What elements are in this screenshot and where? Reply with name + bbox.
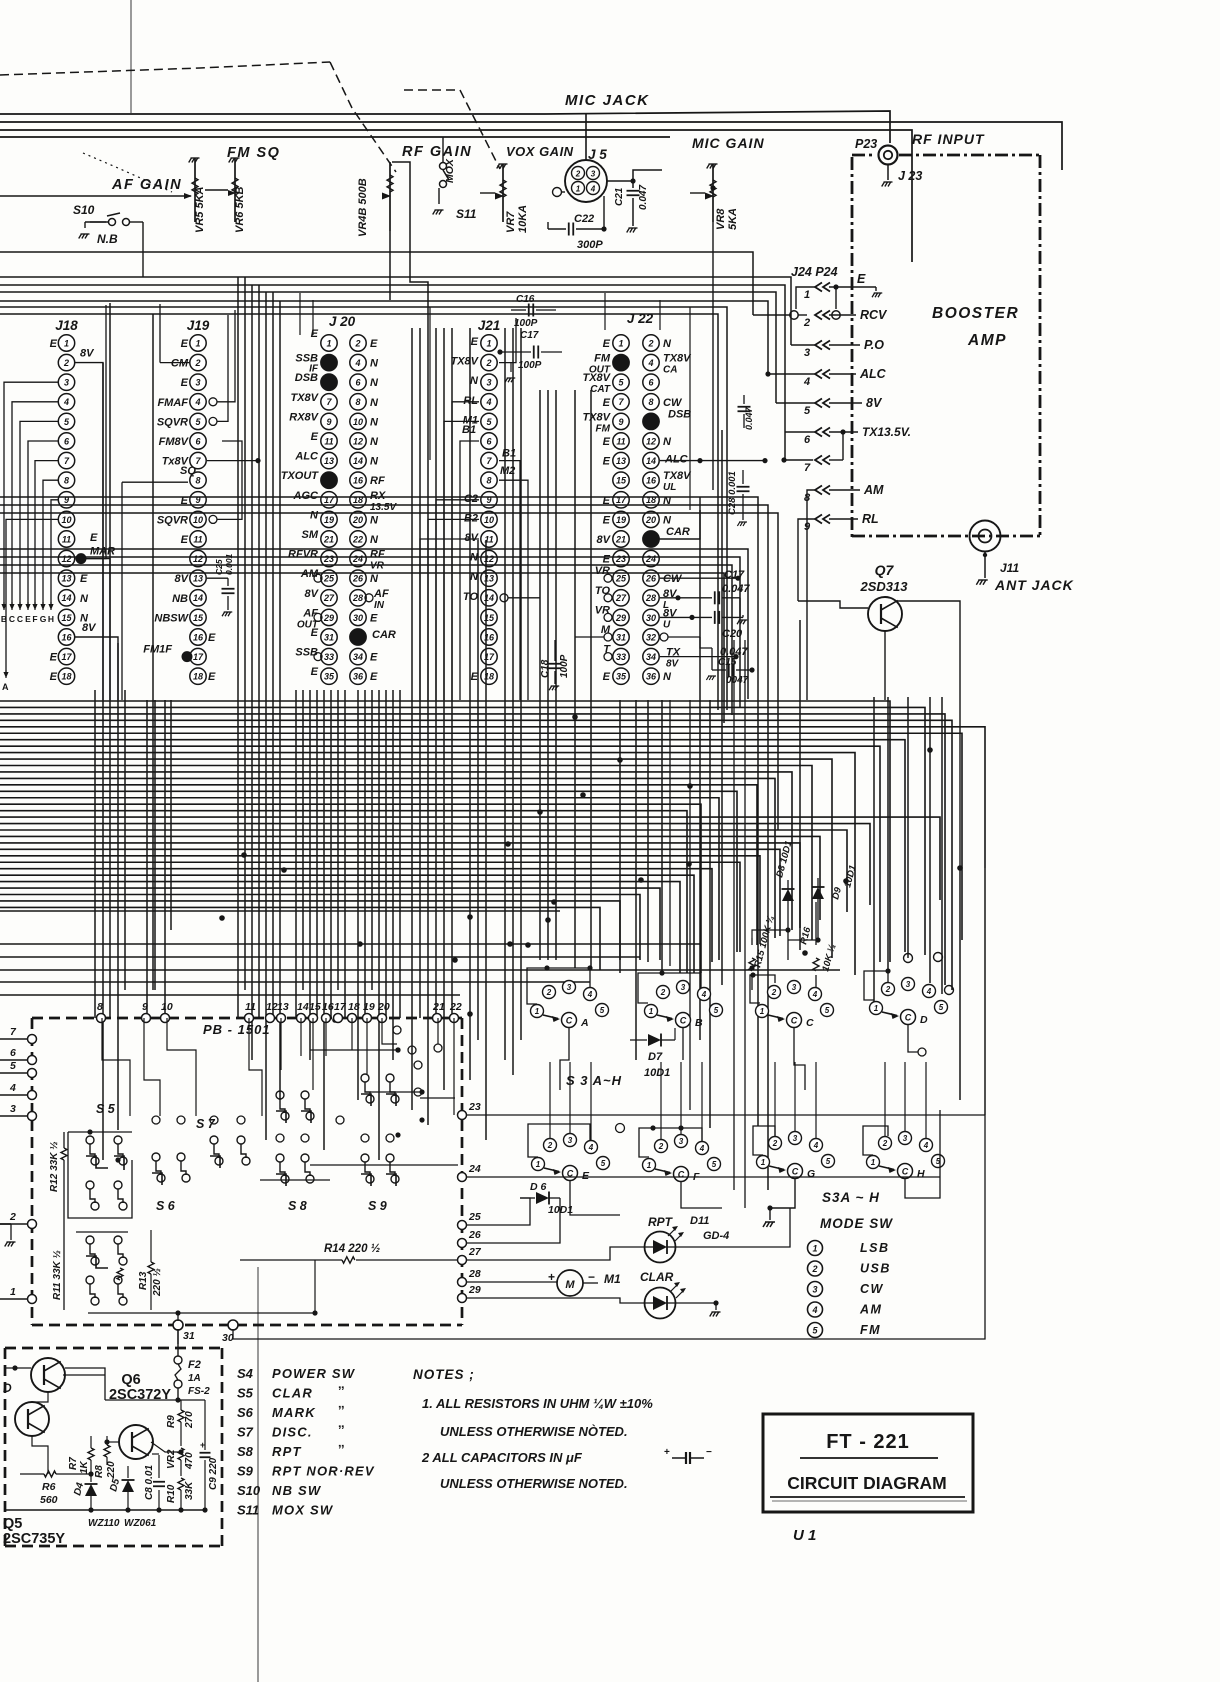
svg-text:AM: AM (863, 483, 884, 497)
svg-text:0.047: 0.047 (744, 406, 754, 430)
svg-text:16: 16 (61, 632, 72, 642)
capacitor C8 0.01 (158, 1455, 160, 1478)
PB-1501 top terminals 8-22 (97, 1014, 106, 1023)
svg-text:RL: RL (862, 512, 879, 526)
wafer C bracket wires (750, 975, 775, 1003)
svg-text:10D1: 10D1 (644, 1067, 670, 1079)
svg-text:D: D (3, 1381, 12, 1395)
svg-text:9: 9 (618, 417, 623, 427)
svg-text:1: 1 (64, 338, 69, 348)
svg-text:21: 21 (432, 1001, 445, 1013)
svg-text:4: 4 (811, 1305, 817, 1315)
svg-text:C: C (791, 1016, 798, 1026)
svg-text:D11: D11 (690, 1215, 709, 1227)
svg-text:3: 3 (591, 170, 596, 179)
svg-text:C18: C18 (540, 659, 551, 678)
svg-text:300P: 300P (577, 239, 603, 251)
svg-text:8: 8 (355, 397, 360, 407)
svg-text:FM1F: FM1F (143, 644, 172, 656)
svg-text:8V: 8V (305, 588, 320, 600)
svg-text:M1: M1 (604, 1272, 621, 1286)
svg-text:S 8: S 8 (288, 1199, 307, 1213)
svg-text:H: H (917, 1168, 925, 1180)
svg-text:29: 29 (323, 613, 334, 623)
pot VR7 10KA (497, 164, 508, 169)
svg-text:E: E (370, 671, 378, 683)
diode D9 10D1 (812, 887, 824, 899)
wire Q6 collector bus (105, 1399, 205, 1401)
svg-text:VR8: VR8 (715, 208, 727, 230)
rotary wafer S3 section E (532, 1158, 545, 1171)
svg-text:4: 4 (485, 397, 491, 407)
svg-text:E: E (603, 397, 611, 409)
svg-text:16: 16 (353, 476, 364, 486)
svg-text:6: 6 (10, 1047, 16, 1059)
resistor R8 220 (106, 1436, 108, 1445)
svg-text:CLAR: CLAR (640, 1270, 674, 1284)
svg-text:1: 1 (871, 1158, 876, 1167)
svg-text:Q7: Q7 (875, 562, 895, 578)
svg-text:32: 32 (646, 632, 656, 642)
svg-text:11: 11 (616, 436, 625, 446)
svg-text:25: 25 (323, 574, 335, 584)
svg-text:N: N (370, 358, 379, 370)
PB-1501 left terminals 1-7 (28, 1035, 37, 1044)
svg-text:14: 14 (297, 1001, 309, 1013)
svg-text:E: E (603, 514, 611, 526)
svg-text:8V: 8V (597, 534, 612, 546)
svg-text:E: E (311, 328, 319, 340)
svg-text:J21: J21 (478, 318, 501, 333)
svg-text:RF INPUT: RF INPUT (912, 131, 985, 147)
svg-text:100P: 100P (559, 654, 570, 678)
svg-text:3: 3 (792, 983, 797, 992)
svg-text:23: 23 (323, 554, 334, 564)
svg-text:6: 6 (804, 434, 811, 446)
svg-text:WZ061: WZ061 (124, 1518, 157, 1529)
svg-text:S 9: S 9 (368, 1199, 387, 1213)
svg-text:S 5: S 5 (96, 1102, 116, 1116)
svg-text:E: E (603, 338, 611, 350)
wafer C/G stem wires (794, 1028, 805, 1090)
svg-text:3: 3 (679, 1137, 684, 1146)
svg-text:2: 2 (485, 358, 491, 368)
svg-text:E: E (370, 338, 378, 350)
wire Q7 collector (897, 601, 960, 868)
svg-text:FS-2: FS-2 (188, 1386, 210, 1397)
svg-text:12: 12 (646, 436, 656, 446)
svg-text:17: 17 (193, 652, 204, 662)
svg-text:23: 23 (468, 1101, 481, 1113)
wafer G bracket wires (753, 1126, 775, 1155)
svg-text:SQVR: SQVR (157, 514, 188, 526)
svg-text:FM SQ: FM SQ (227, 145, 280, 161)
svg-text:VR: VR (370, 561, 385, 572)
svg-text:24: 24 (468, 1163, 481, 1175)
svg-text:DISC.: DISC. (272, 1425, 313, 1440)
svg-text:MODE SW: MODE SW (820, 1216, 893, 1231)
svg-text:28: 28 (468, 1268, 481, 1280)
svg-text:8V: 8V (866, 396, 883, 410)
svg-text:35: 35 (324, 672, 335, 682)
svg-text:34: 34 (646, 652, 656, 662)
svg-text:R8: R8 (94, 1465, 105, 1478)
svg-text:S11: S11 (237, 1503, 259, 1518)
svg-text:U 1: U 1 (793, 1527, 816, 1544)
switch link bars (86, 1156, 108, 1168)
svg-text:R13: R13 (138, 1271, 149, 1290)
dashed linkage line to RF GAIN (0, 62, 330, 75)
svg-text:3: 3 (804, 347, 810, 359)
svg-text:AF GAIN: AF GAIN (111, 177, 182, 193)
svg-text:E: E (50, 338, 58, 350)
svg-text:AMP: AMP (967, 332, 1007, 349)
svg-text:5KA: 5KA (727, 208, 739, 230)
svg-text:N: N (370, 456, 379, 468)
svg-text:VR5 5KA: VR5 5KA (194, 186, 206, 233)
svg-text:15: 15 (61, 613, 72, 623)
dashed linkage line to VOX GAIN (404, 90, 500, 169)
svg-text:E: E (25, 614, 31, 624)
svg-text:CW: CW (663, 397, 683, 409)
svg-text:FT - 221: FT - 221 (826, 1431, 910, 1453)
J19 wires (217, 310, 235, 402)
wire pin32 J22 (668, 636, 700, 638)
svg-text:E: E (208, 671, 216, 683)
svg-text:MOX SW: MOX SW (272, 1503, 334, 1518)
svg-text:S4: S4 (237, 1366, 254, 1381)
wire mesh lower horizontals (0, 910, 560, 912)
svg-text:B1: B1 (462, 424, 476, 436)
svg-text:VOX GAIN: VOX GAIN (506, 144, 574, 159)
capacitor C9 220 (204, 1400, 206, 1450)
svg-text:C: C (902, 1167, 909, 1177)
svg-text:NB SW: NB SW (272, 1483, 322, 1498)
svg-text:21: 21 (615, 534, 626, 544)
svg-text:4: 4 (354, 358, 360, 368)
svg-text:N: N (663, 436, 672, 448)
svg-text:E: E (50, 652, 58, 664)
capacitor C18 100P (575, 636, 604, 638)
svg-text:11: 11 (245, 1001, 256, 1013)
svg-text:1: 1 (195, 338, 200, 348)
svg-text:13: 13 (277, 1001, 289, 1013)
wafer E stem (570, 1181, 620, 1215)
svg-text:MIC JACK: MIC JACK (565, 92, 650, 109)
svg-text:N: N (370, 416, 379, 428)
svg-text:J 23: J 23 (898, 169, 922, 183)
J18 wires to off-page arrows B-H (4, 382, 58, 604)
svg-text:FM: FM (596, 423, 611, 434)
svg-text:16: 16 (193, 632, 204, 642)
wire J24 pin2 RCV (753, 314, 790, 316)
svg-text:C17: C17 (724, 569, 745, 581)
rotary wafer S3 section H (867, 1156, 880, 1169)
svg-text:9: 9 (142, 1001, 148, 1013)
svg-text:TX8V: TX8V (663, 353, 692, 365)
svg-text:24: 24 (352, 554, 363, 564)
svg-text:25: 25 (615, 574, 627, 584)
svg-text:2: 2 (882, 1139, 888, 1148)
pot VR6 5KB (229, 158, 240, 163)
svg-text:3: 3 (681, 983, 686, 992)
svg-text:R6: R6 (42, 1481, 56, 1493)
svg-text:2: 2 (772, 1139, 778, 1148)
J18 pin10 wire to arrow A (6, 519, 58, 672)
diode D7 10D1 (630, 1039, 647, 1041)
svg-text:LSB: LSB (860, 1241, 890, 1255)
svg-text:36: 36 (353, 672, 364, 682)
svg-text:CAR: CAR (666, 526, 690, 538)
svg-text:E: E (370, 612, 378, 624)
svg-text:FM: FM (594, 353, 611, 365)
svg-text:2: 2 (803, 317, 810, 329)
svg-text:B1: B1 (502, 448, 516, 460)
wire top bus 4 (0, 136, 670, 138)
svg-text:12: 12 (353, 436, 363, 446)
svg-text:10KA: 10KA (517, 205, 529, 233)
svg-text:2: 2 (63, 358, 69, 368)
rotary wafer S3 section F (643, 1159, 656, 1172)
svg-text:28: 28 (352, 593, 363, 603)
svg-text:TX8V: TX8V (582, 372, 611, 384)
svg-text:560: 560 (40, 1494, 58, 1506)
wire J24 pin4 ALC (768, 373, 815, 375)
svg-text:1: 1 (10, 1286, 16, 1298)
svg-text:12: 12 (193, 554, 203, 564)
svg-text:470: 470 (184, 1452, 195, 1470)
svg-text:J24 P24: J24 P24 (791, 265, 838, 279)
svg-text:1: 1 (874, 1004, 879, 1013)
svg-text:RPT: RPT (648, 1215, 674, 1229)
svg-text:N: N (370, 436, 379, 448)
svg-text:29: 29 (615, 613, 626, 623)
svg-text:24: 24 (645, 554, 656, 564)
svg-text:VR: VR (595, 565, 610, 577)
svg-text:31: 31 (616, 632, 626, 642)
pot VR4B 500B (389, 162, 391, 231)
svg-text:20: 20 (377, 1001, 390, 1013)
wire mesh junction dots (241, 852, 247, 858)
rotary wafer S3 section C (756, 1005, 769, 1018)
svg-text:36: 36 (646, 672, 657, 682)
svg-text:2: 2 (811, 1264, 817, 1274)
J18 wire pin16 (75, 637, 118, 700)
svg-text:N.B: N.B (97, 232, 118, 246)
svg-text:CW: CW (663, 573, 683, 585)
svg-text:1. ALL RESISTORS IN UHM ¼: 1. ALL RESISTORS IN UHM ¼W ±10% (422, 1396, 653, 1411)
svg-text:MIC GAIN: MIC GAIN (692, 135, 765, 151)
resistor R9 270 (180, 1400, 182, 1410)
wire Q7 emitter (884, 631, 886, 700)
pot VR8 5KA (707, 164, 718, 169)
svg-text:4: 4 (813, 1141, 819, 1150)
svg-text:2: 2 (547, 1141, 553, 1150)
svg-text:E: E (582, 1170, 590, 1182)
diode D8 10D1 (782, 889, 794, 901)
svg-text:5: 5 (10, 1060, 16, 1072)
svg-text:C8 0.01: C8 0.01 (144, 1465, 155, 1500)
svg-text:E: E (181, 338, 189, 350)
wire C21 to bus (633, 170, 662, 181)
wire risers to bottom wafer pins (549, 1062, 551, 1139)
svg-text:27: 27 (615, 593, 627, 603)
svg-text:16: 16 (322, 1001, 334, 1013)
svg-text:29: 29 (468, 1284, 481, 1296)
svg-text:34: 34 (353, 652, 363, 662)
capacitor C21 0.047 (607, 180, 633, 182)
mode legend 4 AM (808, 1302, 823, 1317)
dashed linkage line to AF GAIN (83, 153, 172, 192)
svg-text:ANT JACK: ANT JACK (994, 577, 1074, 593)
mode legend 1 LSB (808, 1241, 823, 1256)
wire rf gain routing (392, 162, 428, 340)
svg-text:R14 220 ½: R14 220 ½ (324, 1243, 380, 1255)
wire J5 top (585, 114, 587, 160)
svg-text:C9 220: C9 220 (208, 1457, 219, 1490)
svg-text:8V: 8V (80, 348, 95, 360)
svg-text:C22: C22 (574, 213, 594, 225)
svg-text:8: 8 (195, 476, 200, 486)
svg-text:SQ: SQ (180, 465, 196, 477)
svg-text:P.O: P.O (864, 338, 884, 352)
svg-text:−: − (588, 1270, 595, 1284)
svg-text:14: 14 (353, 456, 363, 466)
svg-text:25: 25 (468, 1211, 481, 1223)
svg-text:N: N (370, 514, 379, 526)
svg-text:CAR: CAR (372, 629, 396, 641)
wafer D bracket wires (864, 971, 888, 1000)
svg-text:2: 2 (658, 1142, 664, 1151)
resistor R12 33K 1/2 (63, 1132, 65, 1148)
wire J24 pin8 AM (807, 490, 815, 700)
svg-text:3: 3 (567, 983, 572, 992)
svg-text:C: C (792, 1167, 799, 1177)
svg-text:28: 28 (645, 593, 656, 603)
svg-text:14: 14 (646, 456, 656, 466)
diode D5 WZ061 (127, 1466, 129, 1478)
svg-text:C17: C17 (520, 330, 539, 341)
wire top bus 2 (0, 122, 1062, 170)
svg-text:IN: IN (374, 600, 385, 611)
PB-1501 right terminals 23-29 (458, 1111, 467, 1120)
svg-text:8: 8 (486, 476, 491, 486)
svg-text:19: 19 (616, 515, 626, 525)
svg-text:N: N (310, 509, 319, 521)
J22 open circles (604, 574, 612, 582)
svg-text:RF GAIN: RF GAIN (402, 144, 472, 160)
connector J11 ANT JACK (970, 521, 1001, 552)
svg-text:CLAR: CLAR (272, 1386, 313, 1401)
svg-text:5: 5 (804, 405, 811, 417)
svg-text:GD-4: GD-4 (703, 1230, 729, 1242)
svg-text:S7: S7 (237, 1425, 254, 1440)
svg-text:220 ½: 220 ½ (152, 1268, 163, 1297)
svg-text:2: 2 (575, 170, 581, 179)
svg-text:26: 26 (468, 1229, 481, 1241)
svg-text:E: E (80, 573, 88, 585)
svg-text:F2: F2 (188, 1359, 201, 1371)
svg-text:PB - 1501: PB - 1501 (203, 1022, 271, 1037)
svg-text:2: 2 (771, 988, 777, 997)
svg-text:E: E (181, 377, 189, 389)
wire terminal 23 24 25 26 right (466, 1114, 985, 1116)
wire mesh vertical drops from connectors (94, 690, 96, 1018)
svg-text:E: E (471, 336, 479, 348)
rotary wafer S3 section D (870, 1002, 883, 1015)
svg-text:P23: P23 (855, 137, 877, 151)
svg-text:G: G (807, 1168, 815, 1180)
svg-text:+: + (664, 1447, 670, 1458)
Q5/Q6 interior wires (32, 1392, 48, 1402)
svg-text:14: 14 (61, 593, 71, 603)
svg-text:M: M (565, 1279, 575, 1291)
svg-text:RF: RF (370, 549, 385, 561)
svg-text:E: E (603, 554, 611, 566)
svg-text:A: A (580, 1017, 589, 1029)
svg-text:Q5: Q5 (3, 1516, 22, 1532)
svg-text:TX8V: TX8V (450, 356, 479, 368)
svg-text:E: E (857, 272, 866, 286)
svg-text:31: 31 (183, 1330, 195, 1342)
svg-text:3: 3 (64, 378, 69, 388)
svg-text:Q6: Q6 (121, 1372, 140, 1388)
svg-text:S10: S10 (73, 203, 95, 217)
svg-text:E: E (208, 632, 216, 644)
svg-text:1: 1 (486, 338, 491, 348)
fuse F2 1A FS-2 (177, 1329, 179, 1356)
wire AF gain (0, 195, 191, 197)
svg-text:E: E (603, 436, 611, 448)
svg-text:S 6: S 6 (156, 1199, 176, 1213)
svg-text:B2: B2 (464, 512, 478, 524)
svg-text:R9: R9 (166, 1415, 177, 1428)
svg-text:5: 5 (714, 1006, 719, 1015)
capacitor C25 0.001 (207, 577, 228, 579)
svg-text:POWER SW: POWER SW (272, 1366, 356, 1381)
resistor R15 100K 1/4 (751, 975, 753, 990)
svg-text:13: 13 (616, 456, 626, 466)
svg-text:4: 4 (926, 987, 932, 996)
svg-text:2SD313: 2SD313 (860, 579, 909, 594)
pot VR2 470 (178, 1448, 184, 1460)
svg-text:2: 2 (660, 988, 666, 997)
svg-text:4: 4 (588, 1143, 594, 1152)
J20 open circles (314, 574, 322, 582)
wire top bus 3 (0, 130, 912, 262)
svg-text:3: 3 (10, 1103, 16, 1115)
svg-text:RCV: RCV (860, 308, 888, 322)
diode D4 WZ110 (85, 1484, 97, 1496)
svg-text:5: 5 (600, 1006, 605, 1015)
svg-text:ˮ: ˮ (338, 1423, 345, 1438)
wafer F stem (681, 1182, 722, 1208)
svg-text:15: 15 (193, 613, 204, 623)
svg-text:SQVR: SQVR (157, 416, 188, 428)
svg-text:RPT NOR·REV: RPT NOR·REV (272, 1464, 375, 1479)
J24 pin2 mating circles (790, 311, 798, 319)
rotary wafer S3 section A (531, 1005, 544, 1018)
svg-text:3: 3 (903, 1134, 908, 1143)
svg-text:S8: S8 (237, 1444, 254, 1459)
svg-text:DSB: DSB (668, 408, 691, 420)
rotary wafer S3 section G (757, 1156, 770, 1169)
rotary wafer S3 section B (645, 1005, 658, 1018)
svg-text:R10: R10 (166, 1484, 177, 1503)
module Q5/Q6 enclosure (dashed) (5, 1347, 222, 1350)
wire J24 pin9 RL (798, 519, 815, 601)
svg-text:TX8V: TX8V (582, 411, 611, 423)
